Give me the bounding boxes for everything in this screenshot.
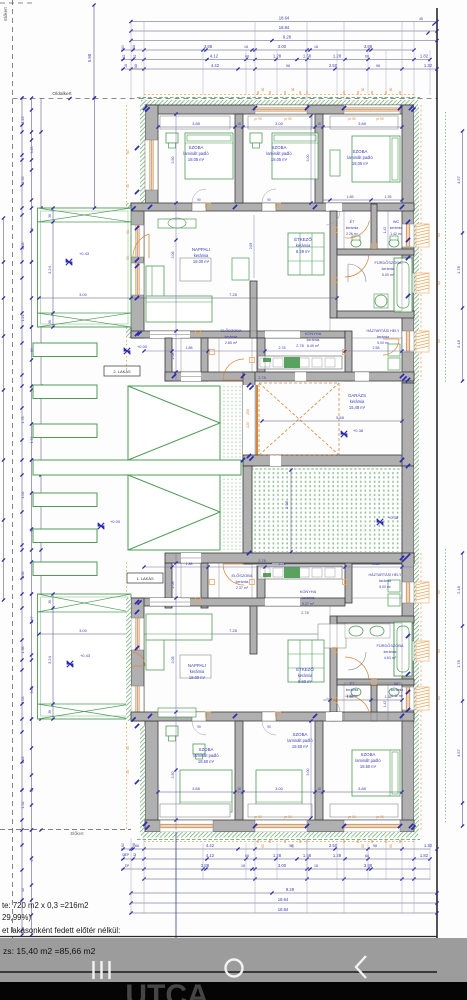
svg-text:2.26 m²: 2.26 m²: [346, 232, 359, 236]
svg-text:pr 90: pr 90: [348, 117, 355, 121]
svg-text:kerámia: kerámia: [346, 226, 359, 230]
svg-text:98: 98: [373, 844, 377, 848]
svg-text:1.28: 1.28: [21, 757, 25, 764]
svg-text:18.50 m²: 18.50 m²: [292, 744, 309, 749]
lower bottom wall: [145, 820, 414, 832]
upper bedrooms south wall: [131, 203, 414, 211]
lower wall szoba2-szoba3: [315, 721, 323, 820]
svg-text:1.42: 1.42: [383, 227, 387, 233]
svg-text:60: 60: [121, 843, 125, 847]
lower bathtub: [394, 622, 412, 676]
lower bath wall vertical: [330, 616, 337, 721]
upper terrace: [38, 208, 132, 327]
lower terrace: [38, 594, 132, 719]
svg-text:2.78: 2.78: [279, 346, 286, 350]
lower left door arc: [131, 652, 145, 666]
chair szoba1: [166, 133, 178, 143]
lower bed szoba2: [256, 770, 302, 812]
green dashed outline bottom: [137, 839, 420, 841]
svg-text:Oldalkert: Oldalkert: [52, 91, 72, 97]
svg-text:8.49 m²: 8.49 m²: [307, 344, 320, 348]
property line top-left dashed: [0, 2, 35, 4]
svg-text:18.50 m²: 18.50 m²: [198, 759, 215, 764]
upper wall szoba1-szoba2: [235, 114, 243, 203]
svg-text:laminált padló: laminált padló: [287, 738, 313, 743]
lower coffee table: [180, 655, 211, 678]
upper etkezo-konyha opening: [265, 331, 300, 338]
lower furdo door arc: [348, 652, 366, 670]
svg-text:42: 42: [133, 55, 137, 59]
svg-text:2.58: 2.58: [373, 346, 380, 350]
svg-text:60: 60: [437, 649, 441, 653]
svg-text:60: 60: [126, 150, 130, 154]
svg-text:1.78: 1.78: [21, 417, 25, 424]
svg-text:60: 60: [437, 233, 441, 237]
garage orange X box: [259, 383, 339, 455]
orange sill hatches right: [416, 224, 441, 710]
svg-text:3.23: 3.23: [30, 147, 34, 154]
nav icon recent: [92, 961, 94, 979]
svg-text:kerámia: kerámia: [307, 338, 320, 342]
upper terrace level: [66, 259, 72, 265]
svg-text:ÉTKEZŐ: ÉTKEZŐ: [294, 237, 312, 242]
svg-text:kerámia: kerámia: [346, 688, 359, 692]
svg-text:6.60 m²: 6.60 m²: [298, 679, 313, 684]
nav icon home: [226, 960, 243, 977]
svg-text:3.00: 3.00: [275, 121, 284, 126]
svg-text:2.78: 2.78: [301, 611, 308, 615]
green hatch left lower A: [140, 726, 145, 832]
lower bedrooms north wall: [131, 712, 414, 721]
svg-text:18: 18: [317, 122, 321, 126]
svg-text:18.84: 18.84: [279, 25, 290, 30]
svg-text:38: 38: [48, 710, 52, 714]
garage door opening: [243, 385, 255, 456]
lower ET door arc 1: [345, 657, 369, 679]
svg-text:UTCA: UTCA: [125, 979, 208, 1000]
svg-text:2.78: 2.78: [296, 344, 303, 348]
lower bottom window szoba1: [160, 820, 213, 832]
lower bed szoba1: [180, 770, 232, 812]
svg-text:5.37 m²: 5.37 m²: [302, 602, 315, 606]
svg-text:2.58: 2.58: [21, 572, 25, 579]
svg-text:kerámia: kerámia: [296, 243, 311, 248]
svg-text:kerámia: kerámia: [391, 688, 404, 692]
interior vertical dim x176: [171, 112, 178, 830]
svg-text:60: 60: [437, 339, 441, 343]
svg-text:3.08: 3.08: [171, 252, 175, 259]
lower north band wall A: [165, 563, 172, 608]
garage level mark: [341, 431, 347, 437]
garage dim 5.58: [262, 420, 402, 422]
wc toilet 2: [389, 239, 399, 247]
svg-text:50: 50: [126, 230, 130, 234]
lower nappali north wall: [131, 598, 345, 606]
lower left wall A: [145, 721, 158, 832]
green hatch left lower B: [126, 598, 131, 721]
svg-text:3.88: 3.88: [192, 121, 201, 126]
left dimension columns: [2, 96, 43, 936]
svg-text:60: 60: [126, 746, 130, 750]
svg-text:18.05 m²: 18.05 m²: [188, 157, 205, 162]
sofa nappali: [146, 266, 164, 300]
svg-text:+0.43: +0.43: [80, 653, 91, 658]
garage door orange line: [256, 385, 258, 456]
svg-text:2.50: 2.50: [329, 843, 338, 848]
street line on nav bar: [0, 971, 437, 973]
svg-text:4.42: 4.42: [211, 63, 220, 68]
wardrobe szoba2: [248, 116, 312, 129]
svg-text:5.00 m²: 5.00 m²: [377, 341, 389, 345]
lower bath basin 1: [349, 626, 363, 636]
lower right wall window furdo: [402, 641, 414, 661]
svg-text:1.47: 1.47: [30, 617, 34, 624]
svg-text:Előkert: Előkert: [3, 7, 8, 21]
upper wall ET-furdo horizontal: [337, 249, 414, 255]
upper right wall garage: [402, 383, 414, 466]
svg-text:kerámia: kerámia: [350, 399, 365, 404]
svg-text:ELŐSZOBA: ELŐSZOBA: [221, 328, 242, 333]
room labels upper unit: [183, 145, 402, 348]
svg-text:3.88: 3.88: [364, 863, 373, 868]
upper left wall window nappali2: [131, 263, 144, 295]
svg-text:45: 45: [419, 17, 423, 21]
svg-text:SZOBA: SZOBA: [353, 149, 368, 154]
svg-text:KONYHA: KONYHA: [305, 331, 322, 336]
svg-text:98: 98: [376, 64, 380, 68]
svg-text:18.64: 18.64: [278, 897, 289, 902]
bed szoba2: [272, 133, 318, 179]
lower haztartasi machines: [388, 580, 400, 592]
garage south wall: [243, 455, 414, 466]
svg-text:ELŐSZOBA: ELŐSZOBA: [232, 573, 253, 578]
wardrobe szoba1: [160, 116, 230, 129]
svg-text:60: 60: [261, 844, 265, 848]
dresser nappali top: [158, 219, 196, 228]
svg-text:42: 42: [21, 888, 25, 892]
level mark 0 upper: [124, 348, 130, 354]
band horizontal dims: [142, 346, 414, 569]
svg-text:laminált padló: laminált padló: [193, 753, 219, 758]
coffee table nappali: [180, 258, 211, 281]
svg-text:kerámia: kerámia: [384, 650, 397, 654]
svg-text:90: 90: [197, 198, 201, 202]
svg-text:1.35: 1.35: [385, 195, 392, 199]
upper band wall A: [165, 338, 172, 381]
svg-text:FÜRDŐSZOBA: FÜRDŐSZOBA: [374, 260, 401, 265]
bottom dimension numbers: [121, 843, 433, 912]
lower terrace door gap: [150, 598, 190, 606]
driveway triangle box: [128, 386, 220, 550]
svg-text:kerámia: kerámia: [302, 596, 315, 600]
lower wc toilet 2: [389, 688, 399, 696]
svg-text:3.50: 3.50: [171, 772, 175, 779]
svg-text:3.00: 3.00: [306, 155, 310, 162]
upper south wall: [165, 372, 414, 381]
paving level mark: [377, 519, 383, 525]
lower wardrobe szoba1: [160, 804, 230, 817]
haztartasi door arc: [383, 339, 399, 355]
lower ET-furdo horizontal: [337, 679, 414, 685]
svg-text:60: 60: [121, 45, 125, 49]
terrace dim upper: [39, 297, 337, 299]
svg-text:1.25: 1.25: [21, 117, 25, 124]
lower north band wall D: [345, 553, 352, 603]
svg-text:68: 68: [245, 854, 249, 858]
Oldalkert dashed line: [13, 98, 438, 100]
lower bath counter: [345, 624, 390, 638]
lower bedroom door gap 1: [192, 712, 206, 721]
svg-text:60: 60: [437, 696, 441, 700]
lower entry door gap: [181, 553, 201, 563]
upper bedroom door gap 1: [192, 203, 206, 211]
svg-text:3.00: 3.00: [275, 786, 284, 791]
lower left wall B: [131, 598, 144, 721]
svg-text:5.58: 5.58: [336, 415, 345, 420]
svg-text:3.50: 3.50: [171, 157, 175, 164]
wardrobe szoba3: [330, 116, 398, 129]
green hatch right middle: [414, 383, 419, 564]
svg-text:98: 98: [286, 64, 290, 68]
lower right wall window wc: [402, 687, 414, 710]
svg-text:3.24: 3.24: [47, 655, 52, 664]
svg-text:GARÁZS: GARÁZS: [348, 393, 366, 398]
lower left wall window szoba1: [145, 745, 158, 795]
lower tv cabinet: [318, 624, 346, 648]
orange dotted eave upper left: [126, 105, 128, 208]
svg-text:laminált padló: laminált padló: [266, 151, 292, 156]
svg-text:5.98: 5.98: [87, 53, 92, 62]
Elokert dashed line bottom: [0, 829, 131, 831]
orange dashed eave right lower: [420, 553, 422, 830]
svg-text:SZOBA: SZOBA: [199, 747, 214, 752]
svg-text:+0.00: +0.00: [110, 519, 121, 524]
upper left wall window szoba1: [145, 140, 158, 190]
svg-text:1.58: 1.58: [303, 54, 312, 59]
svg-text:4.12: 4.12: [210, 54, 219, 59]
lower kitchen counter: [258, 566, 342, 579]
svg-text:38: 38: [48, 320, 52, 324]
black bottom bar: [0, 982, 467, 1000]
room inner outlines: [144, 114, 402, 820]
svg-text:3.88: 3.88: [201, 863, 210, 868]
svg-text:+0.38: +0.38: [388, 515, 399, 520]
upper top wall window szoba3: [344, 105, 400, 114]
svg-text:FÜRDŐSZOBA: FÜRDŐSZOBA: [376, 643, 403, 648]
upper ET door arc 2: [345, 221, 370, 238]
svg-text:18: 18: [244, 45, 248, 49]
gray nav bar: [0, 938, 467, 982]
green insulation hatch bottom wall: [141, 832, 418, 838]
svg-text:+0.00: +0.00: [137, 344, 148, 349]
svg-text:2.08: 2.08: [249, 243, 253, 249]
svg-text:18.84: 18.84: [278, 907, 289, 912]
lower wall ET-WC: [371, 685, 377, 721]
svg-text:38: 38: [48, 600, 52, 604]
upper right wall window wc: [402, 224, 414, 247]
upper left wall window nappali1: [131, 225, 144, 257]
bed szoba3: [352, 136, 400, 182]
svg-text:2.78: 2.78: [258, 559, 265, 563]
svg-text:90: 90: [267, 725, 271, 729]
svg-text:1.02: 1.02: [21, 492, 25, 499]
svg-text:2.18: 2.18: [456, 339, 461, 348]
tv cabinet nappali: [232, 258, 249, 280]
svg-text:18.05 m²: 18.05 m²: [352, 161, 369, 166]
upper wall ET-WC: [371, 204, 377, 249]
lower bath basin 2: [370, 626, 384, 636]
kitchen counter upper: [258, 356, 342, 369]
upper left door arc: [148, 234, 150, 258]
svg-text:18.00 m²: 18.00 m²: [193, 259, 210, 264]
upper band wall C: [257, 338, 265, 372]
svg-text:1.28: 1.28: [333, 853, 342, 858]
green dashed outline top: [137, 97, 420, 99]
top dimension numbers: [121, 16, 433, 69]
svg-text:18.05 m²: 18.05 m²: [271, 157, 288, 162]
svg-text:3.00: 3.00: [79, 628, 88, 633]
svg-text:7.28: 7.28: [229, 628, 238, 633]
svg-text:3.00: 3.00: [278, 863, 287, 868]
orange dotted eave midleft b: [126, 562, 128, 594]
svg-text:2.78: 2.78: [279, 562, 286, 566]
lower dresser: [158, 708, 196, 717]
svg-text:2.08: 2.08: [171, 582, 175, 589]
svg-text:kerámia: kerámia: [194, 253, 209, 258]
lower bed szoba3: [352, 750, 400, 796]
svg-text:1.88: 1.88: [186, 562, 193, 566]
svg-text:kerámia: kerámia: [379, 579, 391, 583]
lakas 2 label: [104, 366, 140, 376]
lower left wall window nappali2: [131, 686, 144, 714]
svg-text:3.60: 3.60: [30, 687, 34, 694]
upper south gap hu: [355, 372, 369, 381]
driveway dotted area: [224, 386, 240, 550]
svg-text:18: 18: [237, 122, 241, 126]
upper nappali south wall: [131, 331, 345, 338]
upper left wall A: [145, 105, 158, 208]
svg-text:50: 50: [126, 256, 130, 260]
desk szoba3: [330, 150, 340, 176]
svg-text:4.42: 4.42: [206, 843, 215, 848]
svg-text:1.88: 1.88: [186, 346, 193, 350]
upper band wall D: [345, 331, 352, 381]
chair szoba2: [250, 133, 262, 143]
svg-text:18: 18: [314, 45, 318, 49]
lower left wall window nappali1: [131, 618, 144, 650]
svg-text:kerámia: kerámia: [377, 335, 389, 339]
dim line 5.98 left-top: [93, 4, 95, 98]
svg-text:1.78: 1.78: [456, 659, 461, 668]
paving east wall: [402, 466, 414, 564]
svg-text:60: 60: [361, 88, 365, 92]
green insulation hatch top wall: [141, 100, 418, 106]
orange dotted eave line lower left: [126, 719, 128, 830]
lower right wall window haztartasi: [402, 582, 414, 603]
svg-text:68: 68: [134, 64, 138, 68]
svg-text:zs: 15,40 m2 =85,66 m2: zs: 15,40 m2 =85,66 m2: [3, 946, 96, 956]
svg-text:WC: WC: [393, 220, 400, 224]
svg-text:60: 60: [437, 281, 441, 285]
svg-text:2.50: 2.50: [329, 63, 338, 68]
svg-text:2.37 m²: 2.37 m²: [236, 586, 249, 590]
svg-text:pr 90: pr 90: [254, 815, 261, 819]
svg-text:47: 47: [30, 858, 34, 862]
svg-text:kerámia: kerámia: [390, 226, 403, 230]
svg-text:98: 98: [30, 788, 34, 792]
svg-text:18: 18: [124, 64, 128, 68]
upper ET door arc 1: [345, 255, 369, 277]
svg-text:2. LAKÁS: 2. LAKÁS: [113, 369, 131, 374]
orange jamb marks: [196, 88, 401, 848]
bed szoba1: [185, 133, 233, 179]
upper right wall window furdo: [402, 273, 414, 293]
svg-text:3.00: 3.00: [278, 44, 287, 49]
paving dim 2.98: [290, 470, 292, 552]
property line right: [436, 8, 438, 978]
svg-text:3.88: 3.88: [358, 121, 367, 126]
svg-text:3.24: 3.24: [47, 265, 52, 274]
svg-text:2.68: 2.68: [21, 243, 25, 250]
svg-text:SZOBA: SZOBA: [189, 145, 204, 150]
svg-text:3.88: 3.88: [358, 786, 367, 791]
entry door arc: [223, 359, 244, 380]
svg-text:1.55: 1.55: [21, 177, 25, 184]
paving west wall: [243, 466, 252, 564]
upper right wall window haztartasi: [402, 331, 414, 352]
upper bath wall vertical: [330, 211, 337, 318]
svg-text:68: 68: [365, 854, 369, 858]
upper band wall B: [201, 338, 208, 381]
lower wardrobe szoba3: [330, 804, 398, 817]
svg-text:2.98: 2.98: [284, 500, 289, 509]
orange eave dashes top bottom: [144, 95, 414, 842]
top dimension lines: [121, 20, 439, 71]
upper left wall B: [131, 203, 144, 338]
svg-text:1. LAKÁS: 1. LAKÁS: [136, 576, 154, 581]
svg-text:1.28: 1.28: [273, 54, 282, 59]
svg-text:1.28: 1.28: [273, 853, 282, 858]
lower entry door arc: [223, 564, 244, 585]
lower corridor gap: [326, 712, 342, 721]
lower dining table: [288, 640, 324, 682]
lower wc toilet 1: [351, 688, 361, 696]
svg-text:68: 68: [132, 843, 136, 847]
lower nappali-etkezo stub: [250, 603, 257, 654]
lower bottom window szoba2: [255, 820, 307, 832]
driveway lane strips: [33, 343, 97, 576]
upper terrace door gap: [150, 331, 190, 338]
green hatch left upper B: [126, 203, 131, 338]
upper top wall: [145, 105, 414, 114]
paving south wall: [243, 553, 414, 564]
bottom extension lines: [131, 838, 430, 913]
svg-text:te: 720 m2 x 0,3 =216m2: te: 720 m2 x 0,3 =216m2: [2, 901, 88, 910]
svg-text:50: 50: [126, 770, 130, 774]
svg-text:1.32: 1.32: [424, 843, 433, 848]
svg-text:250: 250: [246, 409, 250, 415]
svg-text:pr 90: pr 90: [376, 815, 383, 819]
orange dashed eave right upper: [420, 105, 422, 380]
svg-text:1.85: 1.85: [347, 195, 354, 199]
paving green dashed border: [251, 469, 403, 553]
svg-text:HÁZTARTÁSI HELY: HÁZTARTÁSI HELY: [367, 329, 401, 333]
paving green dots: [252, 470, 402, 552]
svg-text:NAPPALI: NAPPALI: [192, 247, 210, 252]
svg-text:9.28: 9.28: [283, 35, 292, 40]
lower wall szoba1-szoba2: [235, 721, 243, 820]
paving south gap: [272, 553, 284, 564]
